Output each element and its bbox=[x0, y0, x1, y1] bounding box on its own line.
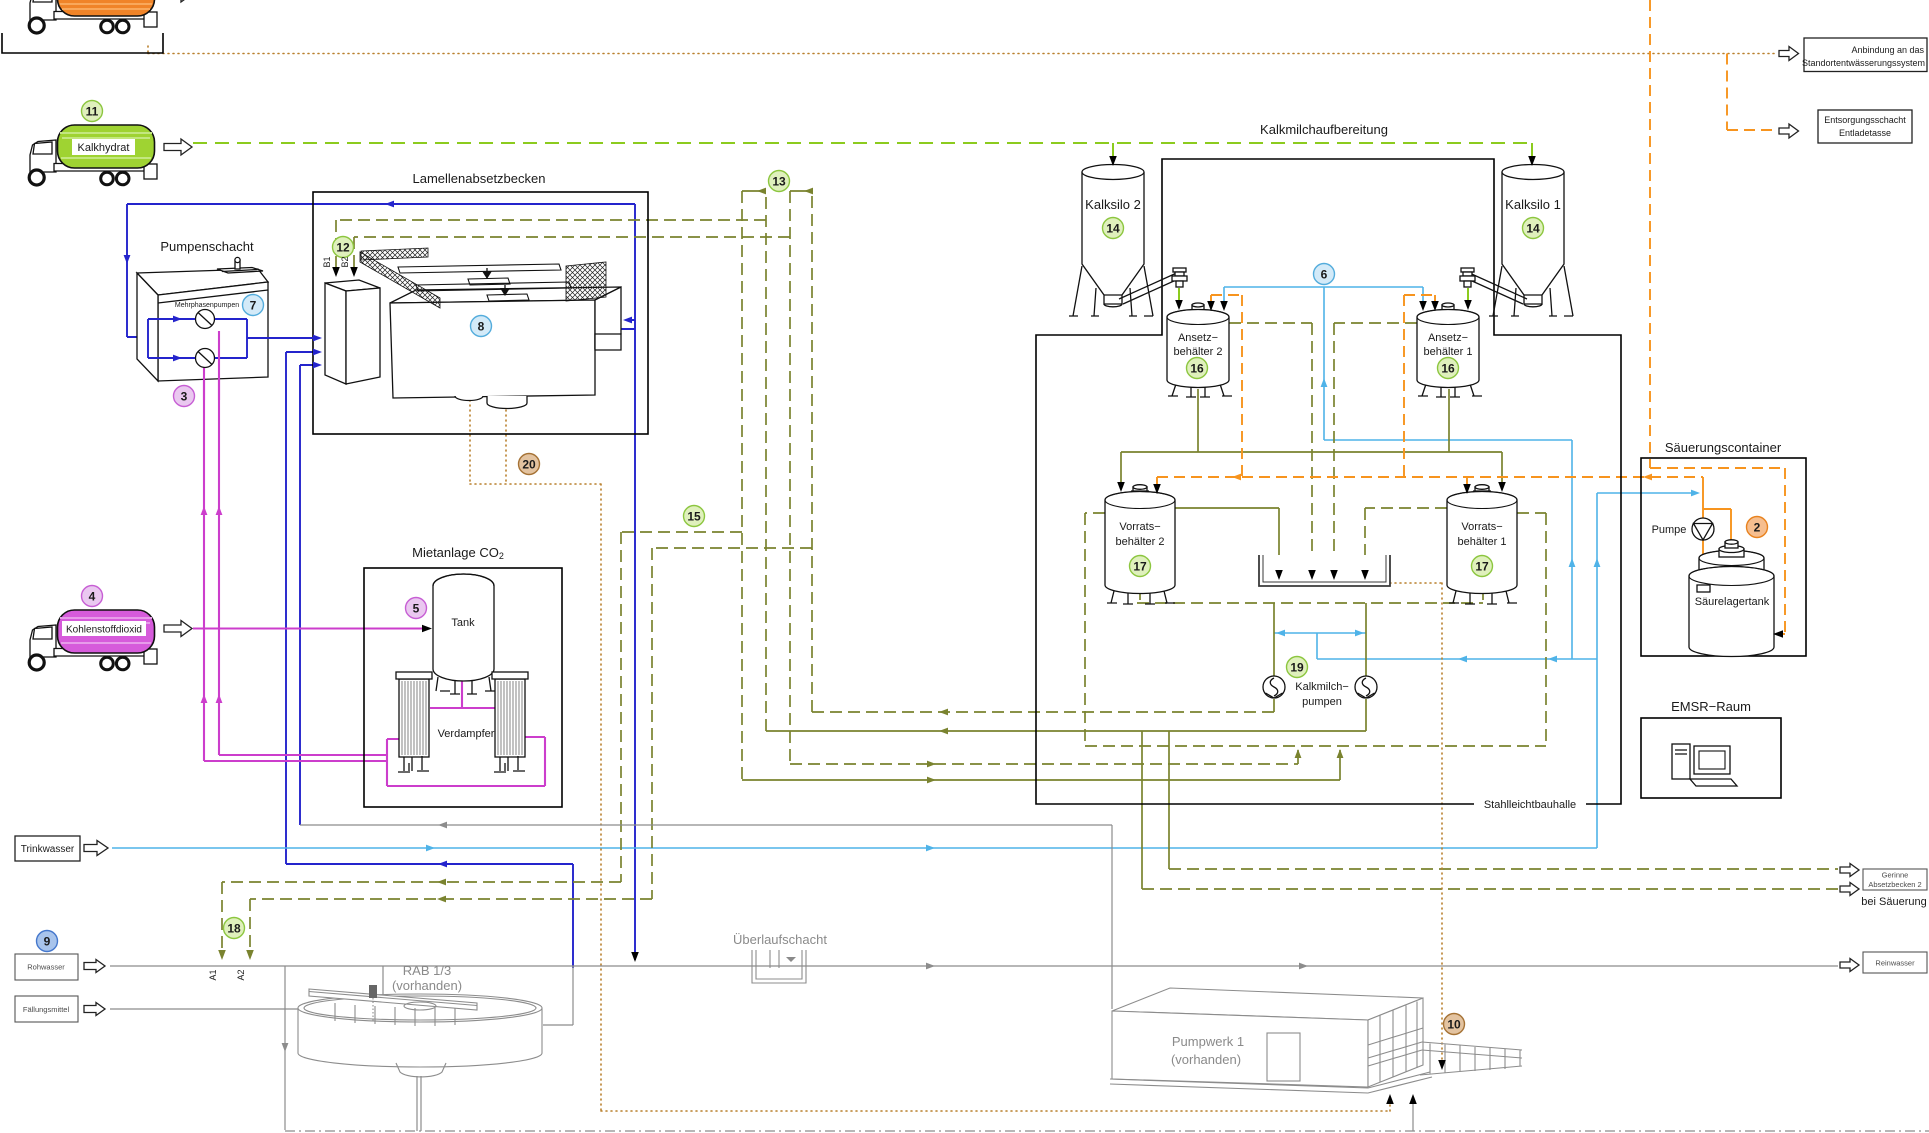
svg-text:Entladetasse: Entladetasse bbox=[1839, 128, 1891, 138]
wire: green Kalkhydrat feed line to silos bbox=[193, 142, 1532, 144]
truck tanker orange (top, clipped) bbox=[29, 0, 192, 33]
output box Entsorgungsschacht Entladetasse bbox=[1818, 110, 1912, 143]
svg-text:5: 5 bbox=[413, 602, 420, 616]
wire: green drop into Kalksilo 2 bbox=[1112, 143, 1114, 160]
flow arrows olive bbox=[939, 728, 948, 735]
dosing feeder above Ansetzbehaelter 1 bbox=[1460, 268, 1475, 287]
wire: gray return line from Pumpwerk bbox=[300, 825, 1112, 1009]
node circle 14 silo1 bbox=[1523, 218, 1544, 239]
wire: blue line basin inlet to gray return bbox=[300, 365, 318, 825]
wire: olive dashed Vorrats 2 recirculation bbox=[1085, 513, 1105, 746]
wire: olive drop to Gerinne line 1 bbox=[1168, 731, 1170, 869]
wire: gray sludge drain line left bbox=[284, 966, 286, 1130]
svg-text:10: 10 bbox=[1447, 1018, 1461, 1032]
wire: gray Pumpwerk bottom connection bbox=[1412, 1100, 1414, 1131]
arrows B1 B2 into basin bbox=[332, 267, 340, 277]
svg-text:4: 4 bbox=[89, 590, 96, 604]
input box Faellungsmittel bbox=[15, 996, 78, 1022]
wire: olive dashed V3 riser to Vorrats manifold bbox=[790, 191, 1298, 764]
svg-text:Vorrats−: Vorrats− bbox=[1461, 521, 1502, 533]
flow arrows cyan bbox=[426, 845, 435, 852]
svg-text:Ansetz−: Ansetz− bbox=[1428, 332, 1468, 344]
wire: olive dashed pump suction manifold bbox=[1137, 588, 1483, 603]
svg-text:17: 17 bbox=[1475, 560, 1489, 574]
svg-text:Kalkmilch−: Kalkmilch− bbox=[1295, 681, 1349, 693]
wire: olive V1 riser to Vorrats manifold bbox=[741, 191, 743, 780]
node circle 13 bbox=[769, 171, 790, 192]
screw conveyor silo2 to Ansetz 2 bbox=[1119, 271, 1185, 304]
node circle 18 bbox=[224, 918, 245, 939]
node circle 5 bbox=[406, 598, 427, 619]
arrow magenta into CO2 Tank bbox=[422, 625, 432, 633]
wire: olive dashed B2 feed into basin bbox=[354, 237, 790, 271]
wire: orange branch to Entsorgungsschacht Entladetasse bbox=[1727, 54, 1778, 131]
box Lamellenabsetzbecken bbox=[313, 192, 648, 434]
wire: cyan Trinkwasser main line bbox=[112, 493, 1696, 848]
screw conveyor silo1 to Ansetz 1 bbox=[1461, 271, 1527, 304]
dosing feeder above Ansetzbehaelter 2 bbox=[1172, 268, 1187, 287]
flow arrows orange bbox=[1232, 474, 1241, 481]
svg-text:A1: A1 bbox=[208, 969, 218, 980]
svg-text:3: 3 bbox=[181, 390, 188, 404]
svg-text:12: 12 bbox=[336, 241, 350, 255]
node circle 7 bbox=[243, 295, 264, 316]
svg-text:15: 15 bbox=[687, 510, 701, 524]
pump Mehrphasenpumpe 2 bbox=[196, 349, 215, 368]
label Stahlleichtbauhalle bbox=[1474, 797, 1586, 810]
node circle 11 bbox=[82, 101, 103, 122]
wire: orange acid manifold to vessels bbox=[1157, 295, 1703, 488]
box Kalkmilchaufbereitung / Stahlleichtbauhalle bbox=[1036, 159, 1621, 804]
arrows into Ansetzbehaelter tops bbox=[1175, 300, 1183, 310]
wire: blue pump discharge manifold to basin bbox=[215, 319, 318, 358]
wire: gray bottom sludge collector line bbox=[285, 1130, 1929, 1132]
svg-text:Ansetz−: Ansetz− bbox=[1178, 332, 1218, 344]
flow arrows gray bbox=[438, 822, 447, 829]
svg-text:Pumpenschacht: Pumpenschacht bbox=[160, 239, 254, 254]
svg-text:(vorhanden): (vorhanden) bbox=[1171, 1052, 1241, 1067]
svg-text:Verdampfer: Verdampfer bbox=[438, 728, 495, 740]
wire: gray Faellungsmittel line bbox=[110, 966, 383, 1009]
wire: olive dashed Ansetz 1 side outlet to trough bbox=[1334, 323, 1417, 574]
Pumpenschacht structure bbox=[137, 257, 268, 381]
wire: gray RAB underflow drains bbox=[417, 1076, 421, 1131]
wire: olive Ansetzbehaelter 1 bottom to Vorratsbehaelter 1 bbox=[1448, 389, 1450, 452]
Verdampfer column right bbox=[492, 672, 528, 772]
svg-text:Gerinne: Gerinne bbox=[1882, 871, 1909, 880]
node circle 4 bbox=[82, 586, 103, 607]
box Saeuerungscontainer bbox=[1641, 458, 1806, 656]
node circle 19 bbox=[1287, 657, 1308, 678]
wire: brown trough overflow to Pumpwerk platform bbox=[1390, 583, 1442, 1064]
svg-text:Kalkmilchaufbereitung: Kalkmilchaufbereitung bbox=[1260, 122, 1388, 137]
pump Mehrphasenpumpe 1 bbox=[196, 310, 215, 329]
svg-text:Lamellenabsetzbecken: Lamellenabsetzbecken bbox=[413, 171, 546, 186]
svg-text:pumpen: pumpen bbox=[1302, 696, 1342, 708]
node circle 3 bbox=[174, 386, 195, 407]
wire: olive Ansetzbehaelter 2 bottom to Vorratsbehaelter 2 bbox=[1197, 389, 1199, 452]
svg-text:14: 14 bbox=[1526, 222, 1540, 236]
EMSR computer icon bbox=[1672, 744, 1737, 786]
svg-text:Stahlleichtbauhalle: Stahlleichtbauhalle bbox=[1484, 799, 1576, 811]
wire: cyan branch to Kalkmilchpumpen area bbox=[1224, 287, 1597, 659]
node circle 2 bbox=[1747, 517, 1768, 538]
wire: magenta CO2 truck feed to tank bbox=[193, 627, 426, 629]
wire: green feeder drop into Ansetzbehaelter 2 bbox=[1178, 288, 1180, 303]
svg-text:B1: B1 bbox=[322, 256, 332, 267]
svg-text:Entsorgungsschacht: Entsorgungsschacht bbox=[1824, 115, 1906, 125]
node circle 16 Ansetz1 bbox=[1438, 358, 1459, 379]
svg-text:17: 17 bbox=[1133, 560, 1147, 574]
svg-text:13: 13 bbox=[772, 175, 786, 189]
svg-text:Überlaufschacht: Überlaufschacht bbox=[733, 932, 827, 947]
wire: green feeder drop into Ansetzbehaelter 1 bbox=[1467, 288, 1469, 303]
svg-text:behälter 2: behälter 2 bbox=[1174, 346, 1223, 358]
wire: blue pump suction manifold bbox=[148, 319, 195, 358]
svg-text:behälter 1: behälter 1 bbox=[1458, 536, 1507, 548]
arrows into silos from green line bbox=[1109, 156, 1117, 166]
svg-text:EMSR−Raum: EMSR−Raum bbox=[1671, 699, 1751, 714]
wire: gray RAB inlet drop bbox=[543, 966, 573, 1025]
svg-text:Kalksilo 1: Kalksilo 1 bbox=[1505, 197, 1561, 212]
svg-text:Mietanlage CO2: Mietanlage CO2 bbox=[412, 545, 504, 561]
Vorratsbehaelter 1 vessel bbox=[1447, 485, 1517, 604]
node circle 17 Vorrats1 bbox=[1472, 556, 1493, 577]
box EMSR-Raum bbox=[1641, 718, 1781, 798]
node circle 14 silo2 bbox=[1103, 218, 1124, 239]
wire: blue recirculation from basin inlet down to RAB bbox=[286, 352, 573, 968]
input box Rohwasser bbox=[15, 954, 78, 980]
wire: blue pump discharge manifold (over box) bbox=[215, 319, 318, 358]
wire: orange acid pump piping in Saeuerungscontainer bbox=[1703, 477, 1731, 556]
Pumpwerk 1 building bbox=[1110, 988, 1522, 1093]
mixing trough bbox=[1259, 555, 1390, 586]
svg-text:Kalksilo 2: Kalksilo 2 bbox=[1085, 197, 1141, 212]
svg-text:8: 8 bbox=[478, 320, 485, 334]
svg-text:Reinwasser: Reinwasser bbox=[1875, 959, 1915, 968]
wire: brown Entladetasse drain to Anbindung bbox=[148, 46, 1776, 54]
node circle 6 bbox=[1314, 264, 1335, 285]
wire: magenta CO2 gas risers (over box) bbox=[204, 331, 219, 400]
wire: blue basin right outlet down to RAB channel bbox=[621, 204, 635, 960]
Ansetzbehaelter 2 vessel bbox=[1167, 303, 1232, 397]
output box Gerinne Absetzbecken 2 bbox=[1863, 869, 1927, 890]
input box Trinkwasser bbox=[15, 836, 80, 861]
wire: olive dashed Vorrats 1 recirculation bbox=[1517, 513, 1546, 746]
wire: blue pump suction manifold (over box) bbox=[148, 319, 195, 358]
wire: olive dashed recirculation manifold bbox=[1085, 745, 1546, 747]
truck tanker Kalkhydrat bbox=[29, 125, 192, 185]
svg-text:7: 7 bbox=[250, 299, 257, 313]
svg-text:Mehrphasenpumpen: Mehrphasenpumpen bbox=[175, 302, 239, 309]
flow arrows blue bbox=[385, 201, 394, 208]
svg-text:behälter 2: behälter 2 bbox=[1116, 536, 1165, 548]
Kalkmilchpumpe right bbox=[1355, 676, 1377, 698]
wire: olive dashed Vorrats 1 side outlet to trough bbox=[1365, 508, 1447, 574]
wire: brown basin sludge drain to Pumpwerk bbox=[470, 400, 1390, 1111]
node circle 9 bbox=[37, 931, 58, 952]
Kalkmilchpumpe left bbox=[1263, 676, 1285, 698]
svg-text:Rohwasser: Rohwasser bbox=[27, 963, 65, 972]
svg-text:Tank: Tank bbox=[451, 617, 475, 629]
svg-text:Standortentwässerungssystem: Standortentwässerungssystem bbox=[1802, 58, 1925, 68]
svg-text:Pumpwerk 1: Pumpwerk 1 bbox=[1172, 1034, 1244, 1049]
svg-text:9: 9 bbox=[44, 935, 51, 949]
wire: olive pump suction drops bbox=[1274, 603, 1366, 676]
svg-text:Säuerungscontainer: Säuerungscontainer bbox=[1665, 440, 1782, 455]
svg-text:RAB 1/3: RAB 1/3 bbox=[403, 963, 451, 978]
svg-text:behälter 1: behälter 1 bbox=[1424, 346, 1473, 358]
box Mietanlage CO2 bbox=[364, 568, 562, 807]
arrow orange into Saeurelagertank bbox=[1773, 630, 1783, 638]
svg-text:11: 11 bbox=[86, 105, 99, 119]
Mietanlage CO2 tank bbox=[433, 574, 494, 681]
svg-text:Anbindung an das: Anbindung an das bbox=[1851, 45, 1924, 55]
svg-text:Kohlenstoffdioxid: Kohlenstoffdioxid bbox=[66, 625, 142, 636]
svg-text:bei Säuerung: bei Säuerung bbox=[1861, 896, 1926, 908]
svg-text:16: 16 bbox=[1441, 362, 1455, 376]
svg-text:Trinkwasser: Trinkwasser bbox=[21, 844, 75, 855]
arrow blue discharge onto channel bbox=[631, 952, 639, 962]
svg-text:16: 16 bbox=[1190, 362, 1204, 376]
pump Pumpe (Saeuerung) bbox=[1692, 518, 1714, 540]
wire: magenta Verdampfer loop bbox=[387, 737, 545, 786]
Ueberlaufschacht symbol bbox=[752, 950, 806, 983]
Saeurelagertank bbox=[1689, 540, 1774, 657]
Kalksilo 1 bbox=[1489, 165, 1573, 317]
Entladetasse tray under orange truck bbox=[2, 33, 163, 53]
arrows into Vorratsbehaelter tops bbox=[1117, 482, 1125, 492]
svg-text:B2: B2 bbox=[340, 256, 350, 267]
node circle 16 Ansetz2 bbox=[1187, 358, 1208, 379]
wire: olive dashed A1 return to RAB bbox=[222, 532, 742, 954]
arrows A1 A2 onto channel bbox=[218, 950, 226, 960]
wire: olive dashed A2 return to RAB bbox=[250, 548, 812, 954]
wire: magenta CO2 gas risers to Mehrphasenpumpen bbox=[204, 331, 387, 761]
node circle 17 Vorrats2 bbox=[1130, 556, 1151, 577]
svg-text:Pumpe: Pumpe bbox=[1652, 524, 1687, 536]
flow arrows magenta bbox=[201, 506, 208, 515]
Verdampfer column left bbox=[396, 672, 432, 772]
truck tanker Kohlenstoffdioxid bbox=[29, 610, 192, 670]
svg-text:18: 18 bbox=[227, 922, 241, 936]
wire: orange main vertical to Saeuerungscontainer bbox=[1650, 0, 1785, 634]
node circle 20 bbox=[519, 454, 540, 475]
wire: magenta tank outlet to Verdampfer manifold bbox=[430, 681, 495, 708]
node circle 8 bbox=[471, 316, 492, 337]
wire: olive drop to Gerinne line 2 bbox=[1141, 731, 1143, 889]
wire: olive pump 2 discharge to riser V2 bbox=[766, 699, 1366, 731]
svg-text:6: 6 bbox=[1321, 268, 1328, 282]
Kalksilo 2 bbox=[1069, 165, 1153, 317]
svg-text:A2: A2 bbox=[236, 969, 246, 980]
svg-text:19: 19 bbox=[1290, 661, 1304, 675]
Ansetzbehaelter 1 vessel bbox=[1417, 303, 1482, 397]
svg-text:Kalkhydrat: Kalkhydrat bbox=[78, 142, 130, 154]
output box Anbindung an das Standortentwaesserungssystem bbox=[1804, 38, 1927, 72]
wire: gray Rohwasser channel to Reinwasser bbox=[110, 965, 1838, 967]
arrows into Pumpwerk bbox=[1386, 1094, 1394, 1104]
svg-text:2: 2 bbox=[1754, 521, 1761, 535]
svg-text:14: 14 bbox=[1106, 222, 1120, 236]
wire: blue Lamellen top return line to Pumpenschacht bbox=[127, 204, 635, 337]
svg-text:Säurelagertank: Säurelagertank bbox=[1695, 596, 1770, 608]
Lamellenabsetzbecken 3D basin bbox=[325, 248, 621, 409]
wire: olive dashed Ansetz 2 side outlet to trough bbox=[1229, 323, 1312, 574]
node circle 10 bbox=[1444, 1014, 1465, 1035]
wire: olive top loop bridges bbox=[742, 190, 812, 192]
svg-text:(vorhanden): (vorhanden) bbox=[392, 978, 462, 993]
wire: olive dashed pump 1 discharge to riser V4 bbox=[1273, 699, 1275, 712]
svg-text:Fällungsmittel: Fällungsmittel bbox=[23, 1005, 70, 1014]
wire: olive dashed B1 feed into basin bbox=[336, 220, 766, 271]
output box Reinwasser bbox=[1863, 952, 1927, 973]
wire: green drop into Kalksilo 1 bbox=[1531, 143, 1533, 160]
wire: olive Vorrats 2 side outlet to trough bbox=[1175, 508, 1279, 574]
svg-text:Absetzbecken 2: Absetzbecken 2 bbox=[1868, 880, 1921, 889]
svg-text:20: 20 bbox=[522, 458, 536, 472]
arrows into mixing trough bbox=[1275, 570, 1283, 580]
svg-text:Vorrats−: Vorrats− bbox=[1119, 521, 1160, 533]
node circle 15 bbox=[684, 506, 705, 527]
wire: olive transfer manifold to Vorrats tops bbox=[1121, 452, 1502, 486]
node circle 12 bbox=[333, 237, 354, 258]
RAB 1/3 clarifier bbox=[298, 985, 542, 1077]
Vorratsbehaelter 2 vessel bbox=[1105, 485, 1175, 604]
